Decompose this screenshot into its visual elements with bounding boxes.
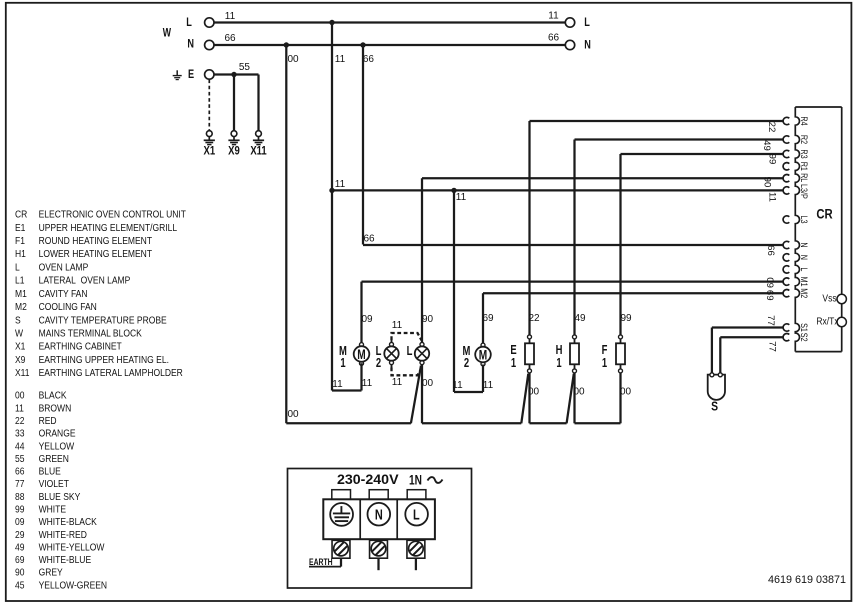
svg-text:11: 11 [452,380,463,391]
svg-text:W: W [163,26,172,40]
svg-text:L1: L1 [15,275,24,287]
svg-text:66: 66 [363,234,375,245]
svg-text:EARTH: EARTH [309,557,333,567]
svg-text:LATERAL OVEN LAMP: LATERAL OVEN LAMP [39,275,131,287]
svg-text:00: 00 [528,387,540,398]
svg-text:69: 69 [15,554,24,566]
svg-text:VIOLET: VIOLET [39,478,69,490]
svg-text:ROUND HEATING ELEMENT: ROUND HEATING ELEMENT [39,235,153,247]
svg-text:N: N [584,38,591,52]
svg-text:11: 11 [456,192,467,203]
svg-text:00: 00 [287,54,299,65]
svg-text:X1: X1 [15,341,25,353]
svg-text:L: L [584,16,590,30]
svg-text:11: 11 [332,379,343,390]
svg-text:R3: R3 [799,149,809,159]
svg-text:S: S [15,315,21,327]
svg-text:M: M [357,346,365,362]
svg-text:ELECTRONIC OVEN CONTROL UNIT: ELECTRONIC OVEN CONTROL UNIT [39,209,187,221]
svg-text:1: 1 [340,357,345,371]
svg-text:WHITE-YELLOW: WHITE-YELLOW [39,542,105,554]
svg-text:11: 11 [335,54,346,65]
svg-text:90: 90 [762,177,773,188]
svg-text:UPPER HEATING ELEMENT/GRILL: UPPER HEATING ELEMENT/GRILL [39,222,178,234]
svg-text:EARTHING UPPER HEATING EL.: EARTHING UPPER HEATING EL. [39,354,169,366]
svg-text:49: 49 [15,542,24,554]
svg-text:N: N [799,242,809,247]
svg-text:99: 99 [620,313,632,324]
svg-text:69: 69 [482,313,494,324]
svg-text:99: 99 [15,504,24,516]
svg-text:F1: F1 [15,235,25,247]
svg-text:2: 2 [376,357,381,371]
svg-text:L: L [407,345,413,359]
svg-text:E1: E1 [15,222,25,234]
svg-text:L: L [413,506,420,523]
svg-text:66: 66 [363,54,375,65]
svg-text:55: 55 [239,62,251,73]
svg-text:M2: M2 [799,288,809,298]
svg-text:X9: X9 [228,145,240,158]
svg-text:00: 00 [620,387,632,398]
svg-text:N: N [375,506,383,523]
svg-text:X1: X1 [203,145,215,158]
svg-text:66: 66 [548,33,560,44]
svg-text:45: 45 [15,580,24,592]
svg-text:WHITE: WHITE [39,504,66,516]
svg-text:22: 22 [15,415,24,427]
svg-text:49: 49 [574,313,586,324]
svg-text:Rx/Tx: Rx/Tx [816,316,838,327]
svg-text:WHITE-BLUE: WHITE-BLUE [39,554,92,566]
svg-text:22: 22 [528,313,540,324]
svg-text:BROWN: BROWN [39,403,72,415]
svg-text:88: 88 [15,491,24,503]
svg-text:09: 09 [15,516,24,528]
svg-text:L: L [186,16,192,30]
svg-text:M: M [479,347,487,363]
svg-text:ORANGE: ORANGE [39,428,76,440]
svg-text:CR: CR [15,209,27,221]
svg-text:RED: RED [39,415,57,427]
svg-text:11: 11 [548,11,559,22]
svg-text:00: 00 [573,387,585,398]
svg-text:11: 11 [15,403,24,415]
svg-text:YELLOW-GREEN: YELLOW-GREEN [39,580,108,592]
svg-text:66: 66 [765,245,776,256]
svg-text:E: E [510,344,516,358]
svg-text:S: S [711,399,718,413]
svg-text:22: 22 [766,122,777,133]
svg-text:L3/P: L3/P [799,184,809,199]
svg-text:55: 55 [15,453,24,465]
svg-text:H: H [556,344,563,358]
svg-text:90: 90 [15,567,24,579]
svg-text:09: 09 [361,314,373,325]
svg-text:00: 00 [15,390,24,402]
svg-text:M1: M1 [15,288,27,300]
svg-text:MAINS TERMINAL BLOCK: MAINS TERMINAL BLOCK [39,328,143,340]
svg-text:11: 11 [392,377,403,388]
svg-text:11: 11 [483,380,494,391]
svg-text:09: 09 [764,277,775,288]
svg-text:S2: S2 [799,333,809,342]
svg-text:OVEN LAMP: OVEN LAMP [39,262,89,274]
svg-text:1: 1 [556,357,561,371]
svg-text:EARTHING LATERAL LAMPHOLDER: EARTHING LATERAL LAMPHOLDER [39,367,183,379]
svg-text:69: 69 [764,290,775,301]
svg-text:29: 29 [15,529,24,541]
svg-text:1N: 1N [409,472,422,488]
svg-text:M2: M2 [15,301,27,313]
svg-text:77: 77 [765,315,776,326]
svg-text:N: N [187,37,194,51]
svg-text:S1: S1 [799,323,809,332]
svg-text:WHITE-RED: WHITE-RED [39,529,87,541]
svg-text:CAVITY FAN: CAVITY FAN [39,288,88,300]
svg-text:E: E [188,68,194,82]
svg-text:44: 44 [15,441,24,453]
svg-text:RL: RL [799,173,809,183]
svg-text:2: 2 [464,357,469,371]
svg-text:BLUE: BLUE [39,466,61,478]
svg-text:R4: R4 [799,116,809,126]
svg-text:11: 11 [362,378,373,389]
svg-text:CR: CR [816,206,832,221]
svg-text:L3: L3 [799,215,809,223]
svg-text:11: 11 [767,192,778,202]
svg-text:R1: R1 [799,162,809,172]
svg-text:GREEN: GREEN [39,453,69,465]
svg-text:90: 90 [422,314,434,325]
svg-text:11: 11 [335,179,346,190]
svg-text:X11: X11 [250,145,266,158]
svg-text:LOWER HEATING ELEMENT: LOWER HEATING ELEMENT [39,248,153,260]
svg-text:1: 1 [602,357,607,371]
svg-text:BLACK: BLACK [39,390,68,402]
svg-text:4619 619 03871: 4619 619 03871 [768,574,846,586]
svg-text:CAVITY TEMPERATURE PROBE: CAVITY TEMPERATURE PROBE [39,315,167,327]
svg-text:66: 66 [15,466,24,478]
svg-text:GREY: GREY [39,567,64,579]
svg-text:49: 49 [761,140,772,151]
svg-text:1: 1 [511,357,516,371]
svg-text:00: 00 [422,378,434,389]
svg-text:77: 77 [767,341,778,352]
svg-text:WHITE-BLACK: WHITE-BLACK [39,516,98,528]
svg-text:Vss: Vss [822,293,836,304]
svg-text:11: 11 [225,11,236,22]
svg-text:11: 11 [392,320,403,331]
svg-text:R2: R2 [799,135,809,145]
svg-text:230-240V: 230-240V [337,472,399,488]
svg-text:33: 33 [15,428,24,440]
svg-text:77: 77 [15,478,24,490]
svg-text:BLUE SKY: BLUE SKY [39,491,81,503]
svg-text:X9: X9 [15,354,25,366]
svg-text:66: 66 [224,33,236,44]
svg-text:YELLOW: YELLOW [39,441,75,453]
svg-text:N: N [799,255,809,260]
svg-text:L: L [799,267,809,271]
svg-text:M1: M1 [799,277,809,287]
svg-text:99: 99 [767,154,778,165]
svg-text:00: 00 [287,409,299,420]
svg-text:X11: X11 [15,367,30,379]
svg-text:L: L [15,262,20,274]
svg-text:W: W [15,328,23,340]
svg-text:EARTHING CABINET: EARTHING CABINET [39,341,122,353]
svg-text:H1: H1 [15,248,26,260]
svg-text:COOLING FAN: COOLING FAN [39,301,97,313]
svg-text:F: F [602,344,608,358]
